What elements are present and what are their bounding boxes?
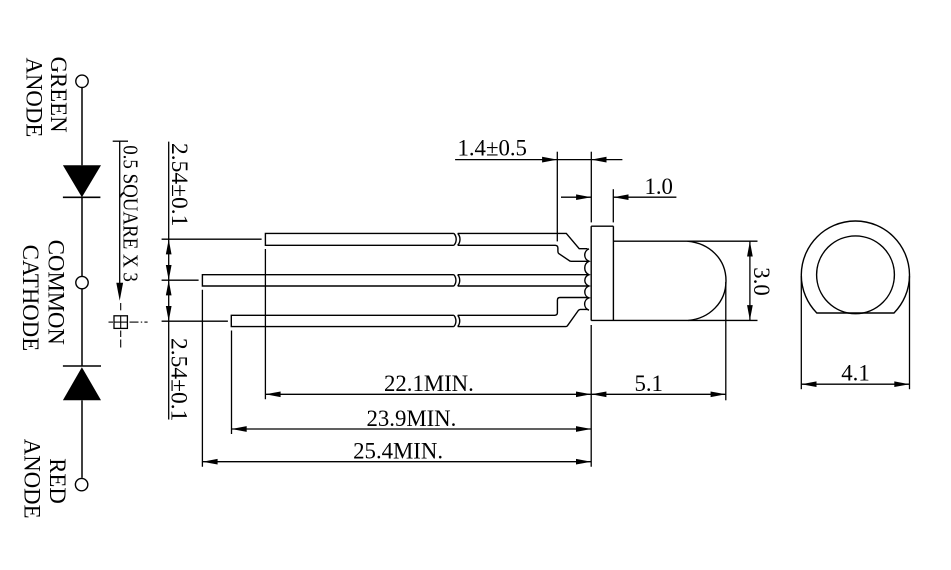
extension line from top lead centerline [162, 238, 262, 240]
diode D1 cathode bar [63, 196, 101, 198]
extension line below middle lead left end [201, 290, 203, 467]
4.1 dimension line [801, 383, 909, 385]
lead crimp wave at flange face [585, 249, 589, 310]
vertical dimension line 2.54 pitch [168, 142, 170, 420]
arrowheads 2.54 upper span [166, 239, 172, 280]
svg-text:2.54±0.1: 2.54±0.1 [166, 143, 192, 226]
diode D1 (green) triangle [63, 165, 101, 197]
svg-text:COMMON: COMMON [43, 240, 69, 345]
leader landing line for 0.5 SQUARE X 3 [113, 140, 128, 142]
middle lead break arc [458, 275, 460, 286]
svg-text:ANODE: ANODE [21, 58, 47, 138]
leader arrowhead [116, 283, 123, 301]
svg-text:1.0: 1.0 [644, 174, 672, 200]
bottom lead right segment top line [458, 298, 588, 316]
svg-text:5.1: 5.1 [634, 370, 662, 396]
svg-text:4.1: 4.1 [841, 360, 869, 386]
svg-text:25.4MIN.: 25.4MIN. [353, 438, 443, 464]
bottom lead break arc [458, 315, 460, 326]
square centerline horizontal dash-dot [109, 321, 148, 323]
arrowheads 2.54 lower span [166, 280, 172, 321]
epoxy dome [687, 241, 726, 320]
svg-text:23.9MIN.: 23.9MIN. [366, 406, 456, 432]
23.9 arrowheads [232, 426, 592, 432]
1.4 dimension line and tails [455, 159, 622, 161]
extension line at lead bend [556, 152, 558, 242]
top lead break arc [458, 233, 460, 245]
extension line below flange left [590, 325, 592, 467]
lead cross-section square symbol [114, 316, 127, 329]
front view outer flange outline (circle with flat bottom) [801, 221, 909, 313]
23.9 dimension line [232, 428, 592, 430]
diode D2 cathode bar [63, 365, 101, 367]
top lead right segment top line [458, 233, 588, 248]
wire: common node to diode D2 [81, 289, 83, 366]
extension line at dome tip [725, 282, 727, 400]
svg-text:3.0: 3.0 [748, 267, 774, 295]
top lead left segment outline [265, 233, 456, 245]
extension line at flange left [590, 152, 592, 223]
4.1 extension line left [800, 276, 802, 389]
package bottom edge + 3.0 extension line [591, 319, 757, 321]
svg-text:22.1MIN.: 22.1MIN. [384, 370, 474, 396]
bottom lead right segment bottom line [458, 309, 588, 326]
4.1 extension line right [909, 276, 911, 389]
extension line at flange right [612, 189, 614, 222]
diode D2 (red) triangle [63, 367, 101, 400]
middle lead left segment outline [202, 275, 456, 286]
square centerline vertical dashes [120, 303, 122, 348]
svg-text:RED: RED [44, 458, 70, 504]
4.1 arrowheads [801, 381, 909, 387]
wire: D2 anode to red anode pin [81, 400, 83, 478]
svg-text:ANODE: ANODE [19, 439, 45, 519]
extension line from bottom lead centerline [162, 320, 228, 322]
terminal circle: red anode pin [75, 478, 87, 490]
terminal circle: green anode pin [76, 75, 88, 87]
svg-text:1.4±0.5: 1.4±0.5 [457, 135, 526, 161]
22.1 dimension line [265, 393, 591, 395]
wire: D1 cathode to common node [81, 197, 83, 276]
25.4 dimension line [202, 461, 591, 463]
extension line below bottom lead left end [231, 331, 233, 435]
svg-text:2.54±0.1: 2.54±0.1 [166, 338, 192, 421]
package flange top edge [591, 225, 613, 227]
wire: green anode to diode D1 [81, 88, 83, 166]
25.4 arrowheads [202, 459, 591, 465]
middle lead right segment lines [458, 275, 588, 286]
package flange left edge [590, 226, 592, 320]
1.4 arrowheads [542, 157, 606, 163]
front view inner body circle [817, 236, 895, 314]
leader line for 0.5 SQUARE X 3 [119, 141, 121, 284]
22.1 arrowheads [265, 391, 591, 397]
3.0 arrowheads [747, 241, 753, 320]
svg-text:0.5 SQUARE X 3: 0.5 SQUARE X 3 [118, 145, 141, 282]
svg-text:CATHODE: CATHODE [17, 245, 43, 351]
5.1 arrowheads [591, 391, 726, 397]
1.0 arrowheads [576, 194, 628, 200]
extension line from middle lead centerline [162, 279, 199, 281]
bottom lead left segment outline [231, 315, 456, 326]
5.1 dimension line [591, 393, 726, 395]
top lead right segment bottom line [458, 245, 589, 261]
svg-text:GREEN: GREEN [45, 57, 71, 133]
package body top edge + 3.0 extension line [613, 240, 757, 242]
package flange right edge [612, 226, 614, 320]
terminal circle: common cathode pin [76, 276, 88, 288]
3.0 dimension line [749, 241, 751, 320]
1.0 dimension tails [561, 196, 676, 198]
extension line below top lead left end [264, 249, 266, 399]
